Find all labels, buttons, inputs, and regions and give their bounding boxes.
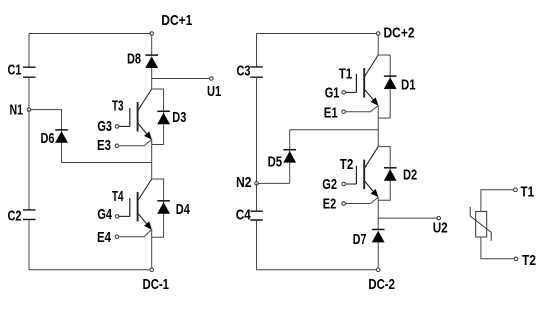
thermistor strike line [470, 207, 491, 241]
transistor T1 (IGBT) [346, 55, 379, 106]
node U1 [210, 77, 214, 81]
wire: U2 tap [378, 217, 437, 219]
wire: D3 branch [152, 89, 164, 145]
svg-text:T4: T4 [112, 189, 124, 205]
terminal G4 [115, 215, 119, 219]
svg-text:T1: T1 [521, 185, 535, 201]
terminal T2 (thermistor bottom) [514, 257, 518, 261]
capacitor C1 [23, 67, 36, 77]
terminal E4 + lead [115, 235, 119, 239]
diode D8 [145, 55, 158, 68]
svg-text:D4: D4 [176, 202, 191, 218]
transistor T4 (IGBT) [119, 179, 152, 230]
svg-text:E1: E1 [324, 105, 338, 121]
wire: left rail top (to C1) [28, 34, 30, 68]
diode D4 [157, 201, 170, 214]
node N1 [27, 108, 31, 112]
svg-text:N1: N1 [10, 103, 24, 119]
wire: D6 junction to main rail [62, 162, 152, 164]
wire: main rail junction to T2 corner [377, 130, 379, 147]
wire: N2 to C4 [256, 183, 258, 211]
diode D5 [283, 150, 296, 163]
wire: main rail DC+2 down to T1 corner [377, 35, 379, 55]
svg-text:T3: T3 [112, 99, 124, 115]
wire: top rail DC+1 [29, 33, 150, 35]
wire: thermistor top lead [481, 190, 514, 212]
svg-text:DC+1: DC+1 [161, 13, 192, 29]
svg-text:D1: D1 [401, 77, 416, 93]
node DC+2 [376, 32, 380, 36]
wire: C3 to N2 [256, 77, 258, 183]
svg-text:E4: E4 [97, 230, 112, 246]
diode D7 [372, 230, 385, 243]
wire: D4 branch [152, 179, 164, 237]
wire: bottom rail DC-1 [29, 269, 150, 271]
wire: bottom rail DC-2 [257, 269, 377, 271]
wire: C4 to bottom rail [256, 220, 258, 270]
node U2 [437, 216, 441, 220]
terminal T1 (thermistor top) [514, 188, 518, 192]
svg-text:E2: E2 [323, 197, 336, 213]
svg-text:C3: C3 [237, 63, 251, 79]
wire: emitter T3 down [151, 139, 153, 163]
wire: emitter T4 down to DC-1 [151, 229, 153, 268]
svg-text:G2: G2 [322, 177, 337, 193]
svg-text:U2: U2 [433, 221, 448, 237]
svg-text:D8: D8 [127, 52, 141, 68]
transistor T3 (IGBT) [119, 89, 152, 140]
terminal G3 [115, 125, 119, 128]
wire: emitter T1 down [377, 105, 379, 130]
diode D2 [384, 168, 397, 181]
svg-text:C2: C2 [8, 209, 22, 225]
svg-text:E3: E3 [97, 138, 111, 154]
wire: main rail to T4 collector corner [151, 163, 153, 180]
diode D3 [157, 111, 170, 124]
wire: D1 branch [378, 55, 390, 118]
node DC-2 [376, 268, 380, 272]
node DC+1 [150, 32, 154, 36]
capacitor C2 [23, 210, 36, 220]
svg-text:T2: T2 [522, 253, 536, 269]
terminal G1 [342, 91, 346, 95]
wire: left rail C1 to N1 [28, 77, 30, 109]
wire: D7 to DC-2 [377, 242, 379, 268]
terminal E1 + lead [342, 110, 346, 114]
diode D6 [55, 130, 68, 143]
svg-text:U1: U1 [207, 84, 221, 100]
svg-text:N2: N2 [236, 175, 252, 191]
wire: D5 branch down [289, 130, 291, 184]
wire: N1 to D6 branch [31, 110, 62, 163]
svg-text:G4: G4 [97, 207, 112, 223]
wire: main rail DC+1 down to D8 [151, 35, 153, 55]
capacitor C3 [250, 67, 262, 77]
transistor T2 (IGBT) [346, 147, 379, 198]
svg-text:G1: G1 [325, 85, 340, 101]
wire: thermistor bottom lead [481, 237, 514, 258]
node N2 [255, 182, 259, 186]
svg-text:C1: C1 [8, 63, 22, 79]
wire: N2 to D5 branch bottom [258, 182, 289, 184]
svg-text:C4: C4 [236, 208, 252, 224]
wire: top rail DC+2 [257, 33, 377, 35]
wire: C3 rail top [256, 34, 258, 68]
diode D1 [384, 76, 397, 89]
svg-text:DC-2: DC-2 [368, 277, 395, 293]
terminal E3 + lead [115, 144, 119, 148]
wire: junction to D5 branch top [290, 129, 379, 131]
wire: D2 branch [378, 147, 390, 201]
svg-text:DC-1: DC-1 [143, 277, 170, 293]
wire: left rail C2 to bottom [28, 219, 30, 269]
terminal E2 + lead [342, 202, 346, 206]
node DC-1 [150, 268, 154, 272]
terminal G2 [342, 182, 346, 186]
svg-text:D3: D3 [172, 110, 186, 126]
wire: emitter T2 down [377, 197, 379, 230]
thermistor R (NTC) body [476, 211, 487, 237]
svg-text:D6: D6 [41, 131, 55, 147]
wire: U1 tap [152, 78, 210, 80]
svg-text:D2: D2 [403, 167, 417, 183]
svg-text:DC+2: DC+2 [384, 26, 415, 42]
svg-text:D7: D7 [353, 232, 367, 248]
svg-text:D5: D5 [268, 154, 283, 170]
capacitor C4 [250, 211, 262, 220]
svg-text:T1: T1 [339, 67, 353, 83]
svg-text:G3: G3 [97, 119, 112, 135]
wire: left rail N1 to C2 [28, 110, 30, 210]
wire: main rail D8 to U1 tap [151, 68, 153, 89]
svg-text:T2: T2 [340, 157, 354, 173]
